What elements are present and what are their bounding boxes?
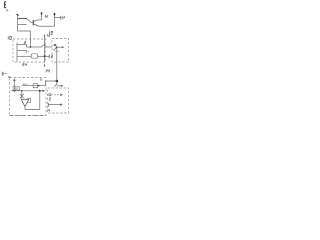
arrowhead Y2 [61, 85, 63, 87]
wire T1 vertical [17, 16, 19, 32]
diagonal Y1 [54, 47, 57, 50]
arrow B shaft [48, 104, 60, 106]
wire branch lower [18, 24, 27, 26]
component oval middle [31, 54, 38, 58]
dashed box bottom left [10, 78, 47, 116]
arrow B head [60, 103, 63, 106]
wire hop over [42, 45, 46, 47]
arrow A head [60, 93, 63, 96]
wire base diagonal [27, 19, 32, 23]
label 14 [46, 69, 49, 72]
component blob top [54, 44, 56, 46]
label 10 [8, 36, 11, 39]
wire stub 2 vertical [54, 14, 56, 26]
label 4 [48, 34, 50, 37]
label 30 tick [5, 72, 7, 74]
tick terminal right [60, 16, 62, 20]
junction dot mid [44, 55, 46, 57]
wire collector horizontal [38, 19, 42, 21]
transistor Q1 emitter diagonal [34, 24, 39, 26]
arrow out head [43, 90, 45, 93]
label 1x [27, 50, 29, 53]
transistor Q1 base bar [32, 20, 34, 25]
op-amp top wire [11, 90, 40, 92]
label 12 [49, 31, 52, 34]
rung 3 wire [17, 55, 31, 57]
junction dot small [38, 85, 40, 87]
wire leader vertical [44, 36, 46, 62]
terminal blob top stub 2 [54, 13, 56, 15]
rung 1 end tick [26, 45, 28, 47]
arrow B tick [47, 103, 49, 107]
tick bar [48, 55, 50, 59]
label 24 [23, 63, 27, 66]
op-amp triangle [21, 100, 29, 107]
arrow right Y2 [57, 85, 62, 87]
wire corner to middle [18, 31, 31, 47]
transistor Q1 base lead [32, 22, 34, 24]
junction dot c [39, 90, 41, 92]
arrowhead Y1 [62, 46, 64, 48]
wire mid continue [46, 46, 52, 48]
wire from dot left [22, 81, 57, 85]
arrowhead up [44, 34, 46, 36]
junction dot bottom [56, 80, 59, 83]
label 34 [48, 109, 50, 112]
arrow A shaft [51, 94, 61, 96]
figure label FIG rotated [5, 1, 7, 8]
arrowhead down leader [44, 65, 46, 67]
spine vertical [16, 43, 18, 62]
crossed diagonals [20, 94, 24, 99]
component box b [17, 87, 20, 90]
arrow A start circle [49, 94, 51, 96]
dashed box bottom right [48, 88, 69, 113]
arrow right Y1 [57, 46, 63, 48]
transistor Y2 stem [56, 81, 58, 84]
terminal T1 tick [16, 14, 19, 16]
op-amp output [25, 91, 40, 110]
wire collector stub up [41, 13, 43, 20]
component tick top [13, 79, 16, 81]
zigzag small [23, 84, 28, 86]
label 9 [63, 16, 65, 19]
corner tick label [8, 76, 10, 78]
rung 2 [17, 50, 27, 52]
bottom edge emphasis [10, 115, 47, 117]
label 8 [46, 15, 48, 18]
wire branch upper [18, 18, 28, 20]
component box a [13, 87, 16, 90]
rung 1 [17, 44, 27, 46]
figure number tick [6, 10, 8, 12]
label 32 [49, 98, 50, 100]
label 30 [2, 72, 4, 75]
wire emitter horizontal [39, 25, 55, 27]
wire from component [38, 55, 45, 57]
label 28 [41, 78, 42, 80]
branch tick right [45, 55, 50, 57]
junction dot Y1 [56, 46, 58, 48]
component box small [33, 84, 37, 88]
dashed box middle right [52, 39, 69, 63]
label 2 small [24, 41, 25, 43]
junction dot base [30, 46, 32, 48]
diagonal Y2 [54, 84, 57, 86]
junction dot a [14, 90, 16, 92]
feedback box [27, 98, 31, 102]
label small right [51, 55, 52, 57]
foot bar Y1 [55, 50, 59, 52]
transistor Q1 collector diagonal [34, 20, 39, 22]
emitter vertical Y1 down [56, 47, 58, 81]
wire branch right [55, 17, 61, 19]
terminal blob top stub 1 [41, 12, 43, 14]
junction dot b [21, 90, 23, 92]
component vertical left [13, 79, 15, 91]
leader stub [44, 64, 46, 66]
arrow out shaft [40, 90, 43, 92]
wire mid horizontal [27, 46, 43, 48]
dashed box left [13, 39, 46, 62]
input vertical [21, 91, 23, 100]
